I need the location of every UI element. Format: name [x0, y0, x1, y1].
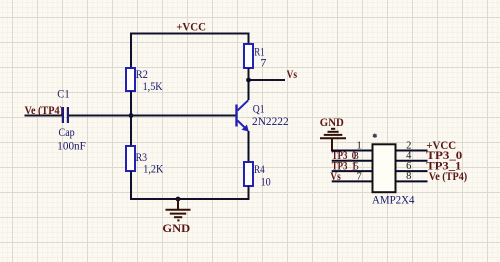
svg-text:C1: C1	[57, 87, 69, 101]
wire left column top (rail to R2)	[130, 33, 132, 69]
wire R3 bottom to ground rail	[130, 171, 250, 199]
node junction GND	[176, 197, 181, 202]
resistor R2	[126, 68, 135, 91]
pin 5	[332, 170, 373, 172]
svg-text:Vs: Vs	[330, 169, 341, 183]
ground symbol (right, connector)	[320, 129, 346, 151]
svg-text:2N2222: 2N2222	[252, 114, 289, 128]
pin 8	[396, 180, 428, 182]
capacitor C1	[62, 107, 64, 123]
pin 7	[332, 180, 373, 182]
node junction Vs/collector	[246, 78, 251, 83]
wire collector vertical	[248, 80, 250, 100]
transistor Q1 2N2222	[237, 100, 289, 131]
connector U AMP2X4 body	[373, 144, 396, 192]
svg-text:7: 7	[357, 172, 362, 183]
pin 6	[396, 170, 428, 172]
wire R4 bottom to ground rail	[248, 186, 250, 199]
svg-text:7: 7	[260, 56, 266, 70]
svg-text:GND: GND	[320, 115, 344, 129]
pin 3	[332, 160, 373, 162]
svg-text:1,2K: 1,2K	[143, 162, 163, 176]
svg-text:1: 1	[357, 140, 362, 151]
svg-text:Ve (TP4): Ve (TP4)	[429, 169, 467, 183]
resistor R3	[126, 146, 135, 171]
wire R1 top from rail	[248, 33, 250, 45]
resistor R1	[244, 44, 253, 68]
svg-text:AMP2X4: AMP2X4	[372, 193, 415, 207]
pin 4	[396, 160, 428, 162]
wire pin1 to ground	[331, 150, 373, 152]
svg-text:8: 8	[406, 171, 411, 182]
svg-text:1,5K: 1,5K	[143, 79, 163, 93]
resistor R4	[244, 162, 253, 186]
svg-text:100nF: 100nF	[57, 138, 86, 152]
svg-text:Ve (TP4): Ve (TP4)	[25, 103, 64, 117]
svg-text:+VCC: +VCC	[176, 20, 206, 34]
wire top +VCC rail	[131, 33, 249, 35]
wire R1 bottom to collector node	[248, 68, 250, 80]
ground symbol (left)	[166, 199, 191, 220]
svg-text:GND: GND	[162, 221, 190, 235]
wire R2 bottom to base rail	[130, 91, 132, 146]
node junction base/R2/R3	[129, 113, 134, 118]
svg-text:Cap: Cap	[59, 125, 75, 139]
wire emitter vertical	[248, 131, 250, 162]
wire Vs stub	[249, 79, 286, 81]
wire input left segment	[25, 115, 63, 117]
svg-text:10: 10	[261, 174, 271, 188]
pin 2	[396, 150, 428, 152]
svg-text:Vs: Vs	[287, 67, 298, 81]
marker *	[373, 134, 377, 138]
wire base rail (C1 to Q1 base)	[69, 115, 236, 117]
